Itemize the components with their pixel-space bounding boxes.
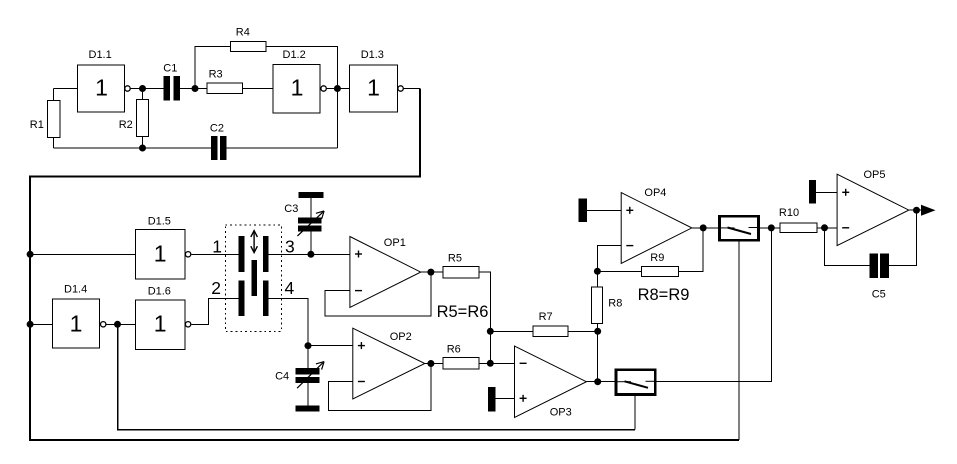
resistor R4 xyxy=(230,26,266,51)
wire main loop from D1.3 output: down, top rail, left rail, bottom rail xyxy=(30,89,739,440)
wire D1.3 output xyxy=(404,88,420,90)
svg-text:D1.1: D1.1 xyxy=(89,49,112,61)
svg-text:R2: R2 xyxy=(119,119,133,131)
svg-text:3: 3 xyxy=(285,237,295,257)
svg-text:OP1: OP1 xyxy=(384,237,406,249)
inverter D1.1 xyxy=(77,49,130,112)
wire R1 bottom lead xyxy=(53,138,55,148)
capacitor C1 xyxy=(163,62,180,100)
wire C4 bottom lead to bar xyxy=(307,383,309,406)
svg-text:D1.6: D1.6 xyxy=(148,285,171,297)
wire OP4 + bar lead xyxy=(587,209,621,211)
wire R1 to D1.1 input xyxy=(54,88,78,90)
switch contact bar lower-left xyxy=(239,281,245,317)
junction C3 node xyxy=(307,251,314,258)
wire R9 right lead up to OP4 output xyxy=(678,228,703,271)
resistor R9 xyxy=(641,252,678,277)
inverter D1.2 xyxy=(273,49,326,113)
wire OP5 output to arrow xyxy=(909,209,922,211)
wire OP1 output to R5 xyxy=(421,271,443,273)
svg-text:D1.4: D1.4 xyxy=(64,283,87,295)
svg-text:1: 1 xyxy=(95,75,108,101)
junction D1.2 output / R4 / C2 xyxy=(334,85,341,92)
svg-text:OP3: OP3 xyxy=(550,407,572,419)
svg-text:D1.5: D1.5 xyxy=(148,215,171,227)
analog switch box after OP3 xyxy=(616,370,655,395)
wire C3 bottom lead to node xyxy=(310,232,312,255)
wire R2 top lead xyxy=(142,89,144,100)
switch actuation double arrow xyxy=(251,231,258,253)
capacitor C3 (variable, with terminal bar) xyxy=(284,192,324,236)
resistor R5 xyxy=(443,253,479,278)
wire C1 to R3 xyxy=(180,88,207,90)
junction OP5 output xyxy=(913,207,920,214)
svg-text:R8=R9: R8=R9 xyxy=(638,286,690,304)
wire R8 bottom to OP3 output node xyxy=(597,324,599,382)
svg-text:1: 1 xyxy=(291,75,304,101)
wire R2 bottom lead xyxy=(142,137,144,148)
op-amp OP3 xyxy=(515,346,587,418)
wire C3 top lead xyxy=(310,198,312,218)
terminal bar at OP4 + input xyxy=(579,199,587,223)
inverter D1.6 xyxy=(136,285,191,349)
junction R6 / OP3 - input xyxy=(487,360,494,367)
switch contact bar lower-right xyxy=(263,281,269,317)
svg-text:R4: R4 xyxy=(236,26,250,38)
inverter D1.3 xyxy=(349,49,403,112)
svg-text:OP2: OP2 xyxy=(390,331,412,343)
svg-text:1: 1 xyxy=(154,310,167,336)
svg-text:4: 4 xyxy=(285,278,295,298)
wire lower bus from D1.4/D1.6 node to OP3 switch xyxy=(118,324,636,429)
wire OP5 + bar lead xyxy=(816,191,837,193)
wire D1.6 output jog to switch pin 2 xyxy=(191,299,238,325)
svg-text:2: 2 xyxy=(211,278,221,298)
junction OP2 output xyxy=(427,360,434,367)
wire OP2 feedback loop xyxy=(329,364,431,411)
junction OP1 output xyxy=(427,269,434,276)
svg-text:1: 1 xyxy=(70,310,83,336)
svg-text:R3: R3 xyxy=(209,69,223,81)
wire D1.5 output to switch pin 1 xyxy=(191,253,238,255)
svg-text:C1: C1 xyxy=(163,62,177,74)
svg-text:R5=R6: R5=R6 xyxy=(437,303,489,321)
junction D1.1 output / R2 xyxy=(139,85,146,92)
switch contact bar upper-left xyxy=(239,236,245,272)
terminal bar at OP3 + input xyxy=(488,387,496,412)
resistor R8 xyxy=(592,287,623,324)
svg-text:1: 1 xyxy=(212,237,222,257)
resistor R2 xyxy=(119,99,149,136)
wire R7 right lead xyxy=(568,330,598,332)
resistor R6 xyxy=(443,344,479,370)
junction OP3 output xyxy=(594,378,601,385)
capacitor C5 xyxy=(869,254,888,301)
junction left rail / D1.5 input xyxy=(27,251,34,258)
wire OP5 feedback through C5 xyxy=(825,210,917,265)
inverter D1.4 xyxy=(52,283,106,348)
wire D1.5 input from left rail xyxy=(30,253,136,255)
capacitor C2 xyxy=(210,122,227,160)
wire R7 left lead xyxy=(490,330,533,332)
wire C2 to right riser xyxy=(227,147,338,149)
wire D1.1 output to C1 xyxy=(131,88,164,90)
junction R8 top / R9 / OP4 - xyxy=(594,268,601,275)
junction C1 / R3 / R4 xyxy=(192,85,199,92)
svg-text:R8: R8 xyxy=(608,297,622,309)
svg-text:D1.2: D1.2 xyxy=(283,49,306,61)
resistor R10 xyxy=(779,207,817,233)
wire R4 right riser down to C2 rail xyxy=(266,47,338,149)
resistor R7 xyxy=(533,311,568,337)
svg-text:R9: R9 xyxy=(650,252,664,264)
wire R10 to OP5 - input xyxy=(817,227,837,229)
svg-text:D1.3: D1.3 xyxy=(361,49,384,61)
wire switch pin 4 to OP2 + input xyxy=(269,299,353,346)
wire R4 left riser xyxy=(195,47,230,89)
junction R2 bottom rail xyxy=(139,145,146,152)
wire R6 to OP3 - input xyxy=(479,362,514,364)
op-amp OP2 xyxy=(353,328,425,399)
op-amp OP4 xyxy=(621,187,692,263)
output arrow at OP5 xyxy=(921,205,936,216)
svg-text:C2: C2 xyxy=(210,122,224,134)
svg-text:OP5: OP5 xyxy=(864,169,886,181)
wire OP3 switch drop to lower bus xyxy=(634,396,636,430)
resistor R1 xyxy=(30,100,60,137)
wire R5 to R7/R6 riser xyxy=(479,272,490,363)
switch block dashed enclosure xyxy=(225,225,281,331)
junction R5 riser / R7 xyxy=(487,328,494,335)
wire OP4 output to switch xyxy=(692,227,718,229)
op-amp OP1 xyxy=(350,237,421,308)
wire C4 top lead from node xyxy=(307,346,309,368)
wire OP4 switch drop to bottom rail xyxy=(738,242,740,440)
wire switch pin 3 to OP1 + input xyxy=(269,253,350,255)
svg-text:R10: R10 xyxy=(779,207,799,219)
wire OP2 output to R6 xyxy=(425,363,443,365)
svg-text:1: 1 xyxy=(367,75,380,101)
analog switch box after OP4 xyxy=(719,216,758,240)
wire D1.2 output to D1.3 input xyxy=(327,88,350,90)
wire OP3 + bar lead xyxy=(496,397,515,399)
junction switch output / OP3 riser xyxy=(768,224,775,231)
svg-text:C4: C4 xyxy=(275,371,289,383)
wire D1.4 input from left rail xyxy=(30,323,52,325)
wire OP4 switch to R10 xyxy=(760,227,780,229)
wire R1 top lead xyxy=(53,89,55,101)
junction R7 / R8 bottom xyxy=(594,328,601,335)
wire R3 to D1.2 input xyxy=(243,88,273,90)
terminal bar at OP5 + input xyxy=(809,180,816,204)
junction R10 / OP5 - / C5 xyxy=(821,224,828,231)
svg-text:R7: R7 xyxy=(539,311,553,323)
switch contact bar upper-right xyxy=(263,236,269,272)
wire OP1 feedback loop xyxy=(325,272,431,316)
junction D1.4 output / D1.6 input / bus xyxy=(114,321,121,328)
svg-text:R1: R1 xyxy=(30,119,44,131)
svg-text:R5: R5 xyxy=(448,253,462,265)
wire R9 left lead xyxy=(597,270,641,272)
capacitor C4 (variable, with terminal bar) xyxy=(275,362,324,412)
junction left rail / D1.4 input xyxy=(27,321,34,328)
switch common bar middle xyxy=(251,260,257,296)
op-amp OP5 xyxy=(837,169,909,245)
inverter D1.5 xyxy=(136,215,191,278)
wire OP3 output to switch xyxy=(586,381,614,383)
junction C4 / OP2 + node xyxy=(305,342,312,349)
svg-text:OP4: OP4 xyxy=(644,187,666,199)
svg-text:1: 1 xyxy=(154,240,167,266)
junction OP4 output xyxy=(700,224,707,231)
svg-text:R6: R6 xyxy=(447,344,461,356)
wire OP4 - input down to R8 top node xyxy=(597,246,621,287)
svg-text:C3: C3 xyxy=(284,203,298,215)
wire OP3 switch to R10 input node riser xyxy=(657,228,772,382)
svg-text:C5: C5 xyxy=(872,288,886,300)
wire bottom feedback rail to C2 xyxy=(54,147,212,149)
wire D1.4 output to D1.6 input xyxy=(106,323,135,325)
resistor R3 xyxy=(207,69,242,94)
